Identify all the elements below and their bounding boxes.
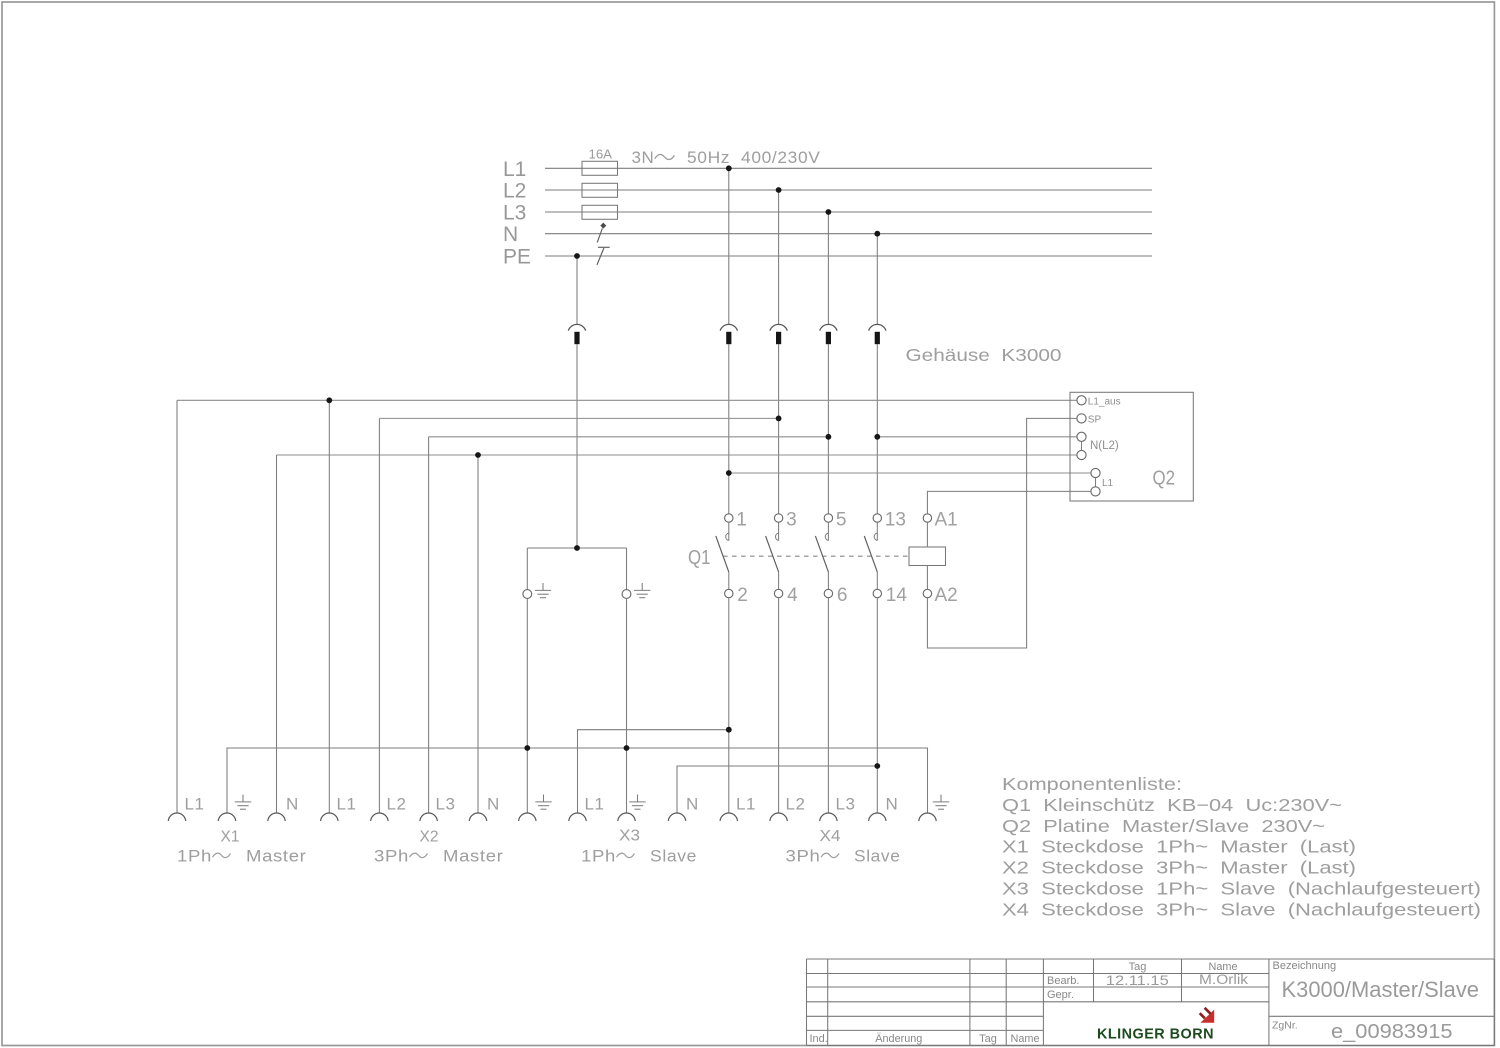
junction PE / X2-earth: [524, 745, 530, 751]
Q2 terminal L1 top: [1091, 468, 1100, 477]
svg-text:X2: X2: [420, 829, 439, 846]
fuse F3: [582, 205, 618, 219]
cable entry PE: [568, 324, 585, 344]
wire X2-L2 to L2 rail: [379, 417, 778, 419]
svg-text:Gepr.: Gepr.: [1047, 989, 1074, 1001]
junction N rail tap: [874, 231, 880, 237]
svg-text:L1: L1: [337, 795, 357, 814]
socket terminal arc X2 PE: [519, 813, 537, 821]
svg-text:L3: L3: [436, 795, 456, 814]
svg-text:5: 5: [836, 510, 847, 531]
svg-text:KLINGER BORN: KLINGER BORN: [1097, 1026, 1214, 1043]
svg-text:14: 14: [886, 585, 908, 606]
junction N / X2-N: [475, 452, 481, 458]
svg-text:X3: X3: [619, 828, 640, 845]
wire supply rail L1: [545, 167, 1152, 169]
svg-text:L1: L1: [1102, 478, 1114, 489]
svg-text:N: N: [487, 795, 500, 814]
contactor Q1 pole contact 3-4: [766, 514, 783, 598]
junction L1 rail tap: [726, 165, 732, 171]
svg-text:PE: PE: [503, 246, 531, 269]
svg-text:4: 4: [787, 585, 798, 606]
svg-text:Q1: Q1: [688, 546, 711, 569]
PE isolating link symbol: [597, 247, 610, 265]
socket terminal arc X4 N: [869, 813, 887, 821]
svg-text:A1: A1: [935, 510, 958, 531]
svg-text:A2: A2: [935, 585, 958, 606]
wire drop X2-L1: [328, 400, 330, 813]
svg-text:Q2: Q2: [1153, 467, 1176, 490]
wire PE drop: [576, 256, 578, 548]
svg-text:13: 13: [885, 510, 906, 531]
wire PE right to X3 earth: [626, 598, 628, 813]
Q2 L1 terminal link: [1095, 478, 1097, 487]
socket terminal arc X2 L2: [371, 813, 389, 821]
svg-text:N: N: [686, 795, 699, 814]
ground symbol PE left: [535, 583, 551, 598]
svg-text:Tag: Tag: [979, 1033, 997, 1045]
junction L3 / X2-L3: [826, 434, 832, 440]
svg-text:Slave: Slave: [650, 847, 697, 866]
contactor Q1 pole contact 1-2: [716, 514, 733, 598]
caption X2 3Ph~ Master: [374, 847, 504, 866]
svg-text:X4 Steckdose 3Ph~ Slave (N: X4 Steckdose 3Ph~ Slave (Nachlaufgesteue…: [1002, 899, 1481, 919]
svg-text:3: 3: [786, 510, 797, 531]
svg-text:X1 Steckdose 1Ph~ Master (: X1 Steckdose 1Ph~ Master (Last): [1002, 837, 1356, 857]
svg-text:Bearb.: Bearb.: [1047, 975, 1079, 987]
Q2 terminal SP: [1077, 414, 1086, 423]
wire N rail to Q2 N(L2) top: [877, 436, 1077, 438]
svg-text:1: 1: [736, 510, 747, 531]
svg-text:3Ph: 3Ph: [786, 847, 821, 866]
Q2 terminal N(L2) bottom: [1077, 450, 1086, 459]
svg-text:1Ph: 1Ph: [177, 847, 212, 866]
svg-text:N: N: [286, 795, 299, 814]
svg-text:Q2 Platine Master/Slave 230: Q2 Platine Master/Slave 230V~: [1002, 816, 1325, 836]
svg-text:Bezeichnung: Bezeichnung: [1273, 960, 1337, 972]
svg-text:Q1 Kleinschütz KB−04 Uc:230: Q1 Kleinschütz KB−04 Uc:230V~: [1002, 795, 1342, 815]
wire supply rail L2: [545, 189, 1152, 191]
contactor Q1 pole contact 13-14: [864, 514, 881, 598]
wire PE header: [527, 547, 626, 549]
svg-text:Gehäuse K3000: Gehäuse K3000: [906, 345, 1062, 365]
svg-text:2: 2: [737, 585, 748, 606]
caption X3 1Ph~ Slave: [581, 847, 697, 866]
wire contact 2 output to X4-L1: [728, 598, 730, 813]
svg-text:N(L2): N(L2): [1090, 440, 1119, 452]
svg-text:X3 Steckdose 1Ph~ Slave (N: X3 Steckdose 1Ph~ Slave (Nachlaufgesteue…: [1002, 879, 1481, 899]
svg-text:N: N: [886, 795, 899, 814]
svg-text:L1: L1: [585, 795, 605, 814]
svg-text:L1: L1: [185, 795, 205, 814]
module Q2 Platine Master/Slave: [1070, 392, 1193, 501]
wire N drop to contact 13: [876, 234, 878, 514]
svg-text:N: N: [503, 223, 518, 246]
ground symbol X2 earth: [535, 795, 551, 810]
wire PE bottom rail: [227, 748, 928, 813]
svg-text:ZgNr.: ZgNr.: [1272, 1019, 1298, 1031]
svg-text:6: 6: [837, 585, 848, 606]
socket terminal arc X3 PE: [618, 813, 636, 821]
cable entry N: [869, 324, 886, 344]
wire drop X1-N: [276, 455, 278, 813]
fuse F1: [582, 161, 618, 175]
coil Q1 A2 terminal: [923, 589, 931, 597]
socket terminal arc X2 L3: [420, 813, 438, 821]
caption X4 3Ph~ Slave: [786, 847, 901, 866]
wire contact 14 output to X4-N: [876, 598, 878, 813]
svg-text:L1: L1: [503, 158, 526, 181]
ground symbol X4 earth: [933, 795, 949, 810]
svg-text:1Ph: 1Ph: [581, 847, 616, 866]
svg-text:L3: L3: [836, 795, 856, 814]
socket terminal arc X3 N: [668, 813, 686, 821]
wire supply rail N: [545, 233, 1152, 235]
junction PE / X3-earth: [624, 745, 630, 751]
title block grid: [807, 959, 1495, 1046]
junction L3 rail tap: [826, 209, 832, 215]
ground symbol X1 earth: [235, 795, 251, 810]
PE terminal circle right: [622, 590, 631, 599]
contactor Q1 pole contact 5-6: [815, 514, 832, 598]
svg-text:L3: L3: [503, 202, 526, 225]
wire drop X2-L3: [428, 437, 430, 813]
wire supply rail L3: [545, 211, 1152, 213]
socket terminal arc X4 L1: [720, 813, 738, 821]
svg-text:Änderung: Änderung: [875, 1033, 922, 1045]
PE terminal circle left: [523, 590, 532, 599]
logo red arrow: [1200, 1010, 1214, 1023]
svg-text:Komponentenliste:: Komponentenliste:: [1002, 774, 1182, 794]
svg-text:X4: X4: [820, 828, 841, 845]
wire L2 drop to contact 3: [778, 190, 780, 514]
wire contact 6 output to X4-L3: [827, 598, 829, 813]
wire drop X2-L2: [378, 418, 380, 813]
junction L2 rail tap: [776, 187, 782, 193]
svg-text:e_00983915: e_00983915: [1331, 1021, 1453, 1043]
junction N / N(L2): [874, 434, 880, 440]
socket terminal arc X2 N: [469, 813, 487, 821]
N isolating link symbol: [597, 223, 606, 243]
coil Q1 A1 terminal: [923, 514, 931, 522]
contactor Q1 actuation dashed line: [723, 555, 909, 557]
coil Q1: [909, 547, 946, 566]
socket terminal arc X1 N: [268, 813, 286, 821]
wire PE left to X2 earth: [526, 598, 528, 813]
junction PE rail tap: [574, 253, 580, 259]
junction X4-L1 / X3-L1: [726, 727, 732, 733]
socket terminal arc X2 L1: [321, 813, 339, 821]
socket terminal arc X4 L3: [820, 813, 838, 821]
svg-text:Master: Master: [443, 847, 504, 866]
svg-text:L1_aus: L1_aus: [1088, 396, 1121, 407]
cable entry L2: [770, 324, 787, 344]
ground symbol PE right: [634, 583, 650, 598]
svg-text:Name: Name: [1209, 961, 1238, 973]
svg-text:L1: L1: [736, 795, 756, 814]
wire coil to A2: [926, 566, 928, 590]
svg-text:K3000/Master/Slave: K3000/Master/Slave: [1282, 977, 1480, 1002]
socket terminal arc X4 PE: [919, 813, 937, 821]
svg-text:X2 Steckdose 3Ph~ Master (: X2 Steckdose 3Ph~ Master (Last): [1002, 858, 1356, 878]
wire contact 4 output to X4-L2: [778, 598, 780, 813]
Q2 N(L2) terminal link: [1081, 441, 1083, 450]
cable entry L3: [820, 324, 837, 344]
svg-text:12.11.15: 12.11.15: [1106, 972, 1169, 988]
svg-text:Ind.: Ind.: [810, 1033, 828, 1045]
junction PE split: [574, 545, 580, 551]
wire L3 drop to contact 5: [827, 212, 829, 514]
svg-text:50Hz 400/230V: 50Hz 400/230V: [687, 148, 821, 167]
wire A1 up to Q2 L1 bottom: [927, 491, 1091, 513]
wire A1 to coil: [926, 522, 928, 547]
junction L2 / X2-L2: [776, 416, 782, 422]
socket terminal arc X4 L2: [770, 813, 788, 821]
sine symbol: [655, 154, 675, 159]
svg-text:SP: SP: [1088, 414, 1102, 425]
wire A2 to Q2 SP: [927, 418, 1077, 648]
wire PE right branch: [626, 548, 628, 590]
Q2 terminal L1_aus: [1077, 396, 1086, 405]
svg-text:3N: 3N: [632, 148, 655, 167]
Q2 terminal L1 bottom: [1091, 487, 1100, 496]
wire X3-N feed: [677, 766, 877, 813]
junction X4-N / X3-N: [874, 763, 880, 769]
svg-text:Slave: Slave: [854, 847, 901, 866]
wire drop X1-L1: [176, 400, 178, 813]
socket terminal arc X1 L1: [168, 813, 186, 821]
svg-text:L2: L2: [786, 795, 806, 814]
socket terminal arc X3 L1: [569, 813, 587, 821]
wire L1 drop to contact 1: [728, 168, 730, 514]
junction L1_aus / X2-L1: [326, 397, 332, 403]
svg-text:Master: Master: [246, 847, 307, 866]
wire L1 rail to Q2 L1 top: [729, 472, 1091, 474]
junction L1 / Q2-L1: [726, 470, 732, 476]
svg-text:L2: L2: [503, 180, 526, 203]
Q2 terminal N(L2) top: [1077, 432, 1086, 441]
cable entry L1: [720, 324, 737, 344]
fuse F2: [582, 183, 618, 197]
socket terminal arc X1 PE: [218, 813, 236, 821]
caption X1 1Ph~ Master: [177, 847, 307, 866]
component list Komponentenliste: [1002, 774, 1481, 919]
wire PE left branch: [526, 548, 528, 590]
wire X2-L3 to L3 rail: [429, 436, 829, 438]
wire N net horizontal to Q2 N(L2) bottom: [277, 454, 1077, 456]
svg-text:L2: L2: [387, 795, 407, 814]
ground symbol X3 earth: [629, 795, 645, 810]
wire X3-L1 feed: [578, 730, 729, 813]
svg-text:16A: 16A: [589, 148, 613, 162]
wire drop X2-N: [477, 455, 479, 813]
svg-text:X1: X1: [221, 829, 240, 846]
svg-text:3Ph: 3Ph: [374, 847, 409, 866]
svg-text:Name: Name: [1011, 1033, 1040, 1045]
wire L1_aus net horizontal: [177, 399, 1077, 401]
svg-text:M.Orlik: M.Orlik: [1199, 972, 1248, 987]
wire supply rail PE: [545, 255, 1152, 257]
